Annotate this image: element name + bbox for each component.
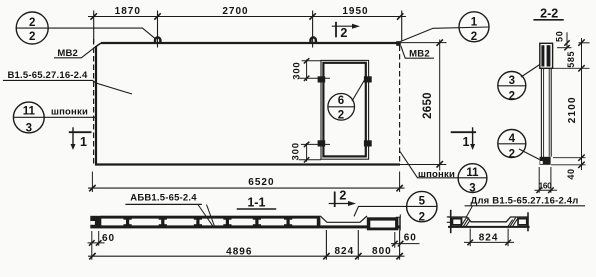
callout circle 6/2	[328, 78, 366, 122]
right dimension chain 585/2100/40	[551, 38, 590, 180]
callout circle 1/2	[401, 12, 490, 43]
dimension 300 upper	[292, 58, 330, 81]
body of section 2-2	[541, 68, 551, 157]
svg-text:1: 1	[463, 135, 470, 149]
bottom dimension chain 4896/824/800	[88, 230, 405, 260]
svg-text:1870: 1870	[115, 6, 141, 17]
svg-text:585: 585	[566, 51, 576, 68]
dimension 160	[535, 167, 558, 193]
svg-text:МВ2: МВ2	[409, 48, 430, 59]
thick-walled void right of recess	[367, 217, 399, 230]
section mark 2 bottom	[329, 188, 356, 207]
slab right end top lip	[396, 214, 401, 217]
anchor embed top-right	[364, 76, 372, 82]
svg-text:824: 824	[334, 246, 354, 257]
callout circle 3/2	[498, 65, 540, 103]
svg-text:6520: 6520	[248, 177, 274, 188]
svg-text:60: 60	[102, 233, 115, 244]
bottom block of section 2-2	[540, 157, 551, 165]
svg-text:3: 3	[509, 75, 515, 87]
rib 1	[124, 218, 132, 225]
svg-text:1-1: 1-1	[247, 195, 265, 209]
piece left void	[451, 218, 462, 226]
svg-text:6: 6	[338, 95, 344, 107]
recess over doorway (section)	[320, 216, 367, 222]
svg-text:1950: 1950	[342, 6, 368, 17]
svg-text:В1.5-65.27.16-2.4: В1.5-65.27.16-2.4	[8, 70, 88, 81]
dimension 2650 right of plan	[401, 39, 447, 170]
svg-text:3: 3	[26, 122, 32, 134]
slab right end edge	[399, 217, 401, 231]
anchor embed top-left	[318, 76, 326, 82]
piece hatch left	[461, 218, 470, 227]
lifting loop right	[311, 37, 316, 43]
slab bottom flange	[101, 225, 400, 228]
dimension 6520	[88, 172, 405, 193]
svg-text:2650: 2650	[422, 92, 434, 119]
svg-text:4: 4	[509, 133, 516, 145]
svg-text:2: 2	[509, 148, 515, 160]
piece hatch right	[508, 218, 518, 227]
svg-text:2: 2	[339, 188, 346, 202]
rib 3	[194, 218, 202, 225]
svg-text:шпонки: шпонки	[418, 169, 455, 180]
callout circle 5/2	[354, 191, 437, 223]
svg-text:2: 2	[29, 17, 35, 29]
svg-text:5: 5	[419, 196, 426, 208]
svg-text:Для В1.5-65.27.16-2.4л: Для В1.5-65.27.16-2.4л	[470, 195, 578, 206]
label Dlya V1.5-65.27.16-2.4L	[465, 195, 585, 216]
panel outline (plan view)	[95, 43, 446, 165]
lifting loop left	[155, 37, 160, 43]
svg-text:2: 2	[419, 212, 425, 224]
dimension 300 lower	[291, 142, 330, 163]
anchor embed bottom-right	[364, 140, 372, 146]
svg-text:50: 50	[554, 30, 564, 42]
svg-text:шпонки: шпонки	[51, 107, 88, 118]
svg-text:60: 60	[404, 233, 417, 244]
dimension ticks top chain	[91, 13, 404, 19]
label MB2 left	[54, 47, 96, 59]
rib 4	[223, 218, 231, 225]
section mark 1 left	[69, 127, 92, 150]
section title 1-1	[237, 195, 277, 209]
svg-text:11: 11	[466, 167, 479, 179]
callout circle 2/2	[16, 12, 155, 44]
label B1.5-65.27.16-2.4	[3, 70, 132, 94]
svg-text:2: 2	[471, 31, 477, 43]
panel hidden edge right (dashed)	[399, 46, 401, 165]
section title 2-2	[533, 7, 563, 21]
label ABV1.5-65-2.4	[125, 193, 214, 227]
label MB2 right	[401, 46, 434, 60]
svg-text:300: 300	[291, 142, 302, 160]
svg-text:800: 800	[372, 246, 392, 257]
panel hidden edge left (dashed)	[93, 39, 95, 164]
svg-text:2: 2	[509, 90, 515, 102]
dimension 50	[554, 30, 571, 50]
top dimension line 1870/2700/1950	[88, 11, 406, 48]
svg-text:3: 3	[469, 183, 475, 195]
rib 5	[253, 218, 261, 225]
dimension 824 piece	[464, 229, 514, 247]
section mark 2 top	[332, 22, 360, 40]
callout circle II/3 left with label shponki	[13, 102, 96, 134]
piece outline	[447, 210, 530, 233]
dimension 60 left	[88, 231, 116, 260]
door opening inner frame	[323, 63, 365, 157]
svg-text:АБВ1.5-65-2.4: АБВ1.5-65-2.4	[130, 193, 197, 204]
svg-text:2: 2	[338, 109, 344, 121]
svg-text:40: 40	[566, 168, 576, 179]
slab section 1-1 left end block	[90, 216, 101, 229]
top block of section 2-2	[540, 43, 553, 68]
svg-text:824: 824	[479, 233, 499, 244]
rib 2	[159, 218, 167, 225]
slab top flange left part	[101, 216, 320, 219]
svg-text:2: 2	[29, 31, 35, 43]
svg-text:2100: 2100	[567, 96, 578, 123]
label shponki right + callout circle II/3	[400, 152, 487, 195]
callout circle 4/2	[498, 130, 540, 161]
svg-text:2-2: 2-2	[540, 7, 558, 21]
dimension 60 right	[391, 232, 420, 248]
svg-text:1: 1	[471, 17, 478, 29]
corner embed plate top-right	[396, 41, 401, 46]
anchor embed bottom-left	[318, 140, 326, 146]
piece right void	[517, 218, 527, 226]
section mark 1 right	[451, 127, 476, 150]
door opening outer frame	[321, 60, 369, 159]
svg-text:4896: 4896	[226, 246, 252, 257]
svg-text:300: 300	[292, 61, 303, 79]
svg-text:11: 11	[23, 105, 36, 117]
svg-text:2700: 2700	[222, 6, 248, 17]
svg-text:160: 160	[539, 181, 553, 190]
rib 6	[284, 218, 292, 225]
svg-text:2: 2	[340, 26, 347, 40]
web solid before recess	[317, 218, 321, 225]
svg-text:1: 1	[80, 135, 87, 149]
